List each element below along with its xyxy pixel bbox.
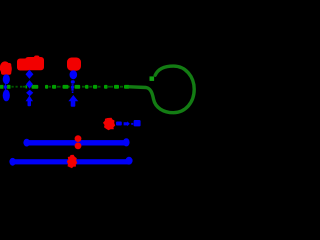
node: bright green gene segments on baseline: [0, 85, 130, 89]
arrow above site 3 (blue oval + dot): [70, 70, 78, 88]
wire: solid green connector and loop (plasmid circle): [130, 66, 194, 113]
label A (red): [0, 61, 12, 74]
chromosome bar 2 (blue): [9, 157, 132, 166]
wire: dark green dashed baseline segments: [12, 86, 124, 88]
red insertion blob on bar 2: [67, 155, 77, 168]
arrow above site 1 (blue oval): [3, 74, 10, 90]
legend: red marker blob: [103, 118, 115, 130]
chromosome bar 1 (blue): [23, 138, 129, 146]
red insertion marker on bar 1 (double dot): [75, 135, 82, 149]
legend: blue text glyphs: [116, 120, 141, 126]
label B (red): [17, 56, 44, 71]
arrow below site 1 (blue oval): [3, 90, 10, 102]
arrow below site 2 (blue diamond + up arrow): [26, 90, 34, 107]
label C (red): [67, 58, 81, 71]
arrow below site 3 (blue dots + up arrow): [68, 88, 78, 107]
node: bright green dot at loop opening: [150, 76, 155, 81]
arrow above site 2 (blue diamond chain): [26, 70, 34, 89]
